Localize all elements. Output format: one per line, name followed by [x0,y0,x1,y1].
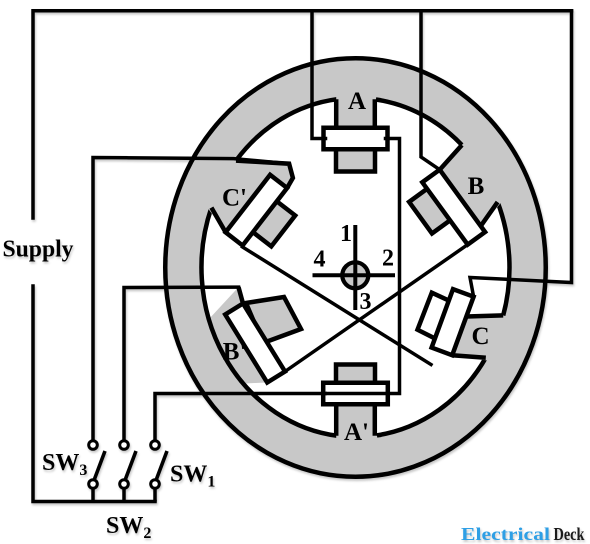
stator ring outer [165,58,546,477]
pole B-prime side [239,287,244,303]
pole stub B [409,184,457,234]
switch SW2 [120,441,136,502]
svg-text:Supply: Supply [3,237,74,263]
coil C' [226,175,288,246]
pole B [440,141,503,245]
rotor axis vertical 1-3 [353,225,357,310]
stator ring inner arc [201,99,509,436]
wire SW2 to coil B-prime [124,287,239,440]
svg-text:A: A [348,88,366,115]
wire supply top bus [33,11,572,218]
wire series A to A-prime [325,139,399,394]
coil B [422,170,485,245]
pole B-prime [209,287,267,384]
svg-text:C: C [471,323,489,350]
switch SW1 [151,441,167,502]
svg-text:B: B [468,173,485,200]
pole A' [336,404,375,443]
wire supply bottom segment [33,286,155,502]
wire coil A left to top bus [312,11,326,139]
svg-text:2: 2 [382,246,394,272]
coil C [432,289,474,355]
svg-text:Deck: Deck [554,524,585,544]
rotor axis horizontal 4-2 [313,273,396,277]
pole stub A' [336,365,375,392]
stator bore (inner disc) [202,98,510,437]
svg-text:C': C' [222,185,247,212]
svg-text:B': B' [223,339,247,366]
wire series B-prime to B [285,245,468,372]
wire top bus to coil B [421,11,440,170]
wire SW3 to coil C-prime [93,158,289,441]
wire series C-prime to C [243,247,432,365]
svg-text:3: 3 [360,289,372,315]
pole A [336,92,375,128]
wire right bus to coil C [470,11,572,297]
coil B' [225,304,285,383]
pole stub C' [246,196,295,246]
pole C [452,315,509,361]
coil A' [323,383,388,404]
svg-text:4: 4 [314,247,326,273]
coil A [324,128,388,149]
pole stub A [336,141,375,172]
rotor shaft circle [342,262,368,288]
pole stub C [418,293,450,340]
svg-text:1: 1 [340,221,352,247]
svg-text:A': A' [344,419,369,446]
wire SW1 to coil A-prime [155,394,325,441]
pole stub B' [246,297,301,343]
switch SW3 [89,441,105,502]
svg-text:Electrical: Electrical [461,524,550,544]
pole C-prime [206,159,293,233]
